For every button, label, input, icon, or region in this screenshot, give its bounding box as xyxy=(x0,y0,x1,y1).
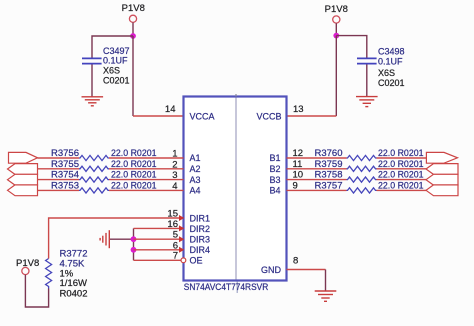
wire R3760 to off-page connector B1 xyxy=(377,157,427,159)
wire bus to pin 7 OE xyxy=(134,259,182,261)
ground below C3497 xyxy=(82,97,104,106)
svg-text:R3753: R3753 xyxy=(51,180,79,191)
svg-text:A1: A1 xyxy=(190,153,201,163)
wire pin 8 GND xyxy=(287,269,326,271)
capacitor C3497 reference/value labels xyxy=(103,46,130,86)
off-page connector B4 (right row 4) xyxy=(426,185,458,196)
svg-text:VCCA: VCCA xyxy=(190,112,215,122)
svg-text:R3755: R3755 xyxy=(51,159,79,170)
svg-text:1: 1 xyxy=(172,149,177,160)
resistor R3760 xyxy=(347,155,377,160)
svg-text:P1V8: P1V8 xyxy=(325,4,348,15)
wire pin 9 to resistor R3757 xyxy=(287,189,347,191)
svg-text:B1: B1 xyxy=(269,153,280,163)
wire A4 connector to resistor R3753 xyxy=(38,189,80,191)
off-page connector A3 (left row 3) xyxy=(8,174,38,185)
svg-text:0.1UF: 0.1UF xyxy=(103,56,128,66)
resistor R3772 xyxy=(46,259,52,289)
svg-text:7: 7 xyxy=(173,251,178,262)
wire bus to pin 16 DIR2 xyxy=(134,227,180,229)
svg-text:B2: B2 xyxy=(269,164,280,174)
svg-text:DIR3: DIR3 xyxy=(190,235,211,245)
svg-text:13: 13 xyxy=(293,104,304,115)
svg-text:6: 6 xyxy=(173,240,178,251)
capacitor C3497 xyxy=(82,58,102,63)
wire R3757 to off-page connector B4 xyxy=(377,189,427,191)
resistor R3757 xyxy=(347,188,377,193)
pin 15 arrowhead DIR1 xyxy=(179,215,184,221)
svg-text:A4: A4 xyxy=(190,186,201,196)
svg-text:R3756: R3756 xyxy=(51,148,79,159)
svg-text:DIR4: DIR4 xyxy=(190,245,211,255)
wire junction down to pin 14 row xyxy=(132,36,134,116)
ground (rotated, at DIR tie) xyxy=(100,230,109,248)
pin 16 arrowhead DIR2 xyxy=(179,225,184,231)
junction P1V8/C3498 tap xyxy=(333,33,339,39)
pin 6 arrowhead DIR4 xyxy=(179,247,184,253)
svg-text:P1V8: P1V8 xyxy=(16,258,39,269)
svg-text:15: 15 xyxy=(167,209,178,220)
capacitor C3498 xyxy=(357,58,377,63)
svg-text:16: 16 xyxy=(167,219,178,230)
svg-text:R3754: R3754 xyxy=(51,170,79,181)
wire bus to pin 6 DIR4 xyxy=(134,249,180,251)
svg-text:9: 9 xyxy=(293,180,298,191)
svg-text:R0402: R0402 xyxy=(60,288,88,299)
resistor R3755 xyxy=(79,166,109,171)
wire pin 11 to resistor R3759 xyxy=(287,168,347,170)
wire pin 10 to resistor R3758 xyxy=(287,179,347,181)
svg-text:11: 11 xyxy=(293,159,303,170)
wire A3 connector to resistor R3754 xyxy=(38,179,80,181)
resistor R3759 xyxy=(347,166,377,171)
capacitor C3498 reference/value labels xyxy=(378,46,405,88)
off-page connector B3 (right row 3) xyxy=(426,174,458,185)
wire R3758 to off-page connector B3 xyxy=(377,179,427,181)
wire bus to pin 5 DIR3 xyxy=(134,238,180,240)
svg-text:14: 14 xyxy=(165,104,176,115)
svg-text:VCCB: VCCB xyxy=(256,112,281,122)
wire junction to capacitor C3497 xyxy=(92,36,133,58)
wire to pin 14 VCCA xyxy=(133,115,184,117)
wire DIR bus (DIR2-OE tie) xyxy=(133,228,135,260)
off-page connector A1 (left row 1) xyxy=(9,152,38,163)
IC internal divider with stubs xyxy=(236,94,237,293)
junction DIR4 tie xyxy=(131,247,137,253)
off-page connector B2 (right row 2) xyxy=(426,164,458,175)
pin 5 arrowhead DIR3 xyxy=(179,236,184,242)
pin 7 inversion bubble OE xyxy=(181,258,186,263)
svg-text:A3: A3 xyxy=(190,175,201,185)
svg-text:GND: GND xyxy=(261,265,282,275)
wire A1 connector to resistor R3756 xyxy=(38,157,80,159)
wire pin 12 to resistor R3760 xyxy=(287,157,347,159)
svg-text:C0201: C0201 xyxy=(103,76,130,86)
wire R3772 top to pin 15 xyxy=(49,218,180,259)
svg-text:12: 12 xyxy=(293,148,304,159)
wire GND down xyxy=(325,270,327,291)
wire junction to capacitor C3498 xyxy=(336,36,367,58)
wire A2 connector to resistor R3755 xyxy=(38,168,80,170)
IC U1 SN74AVC4T774RSVR body xyxy=(184,97,287,281)
svg-text:8: 8 xyxy=(293,256,298,267)
wire P1V8 flag to junction xyxy=(132,23,134,37)
wire ground to DIR bus xyxy=(110,238,134,240)
wire R3753 to pin 4 xyxy=(109,189,184,191)
wire R3755 to pin 2 xyxy=(109,168,184,170)
svg-text:4: 4 xyxy=(172,181,177,192)
wire P1V8 flag to junction (right) xyxy=(335,23,337,35)
power flag P1V8 (top-right) xyxy=(325,4,348,23)
wire R3756 to pin 1 xyxy=(109,157,184,159)
svg-text:R3757: R3757 xyxy=(315,180,343,191)
svg-text:10: 10 xyxy=(293,170,304,181)
svg-text:P1V8: P1V8 xyxy=(122,3,145,14)
svg-text:OE: OE xyxy=(190,256,203,266)
svg-text:2: 2 xyxy=(172,159,177,170)
svg-text:C3497: C3497 xyxy=(103,46,130,56)
wire C3498 to ground xyxy=(366,65,368,97)
svg-text:R3760: R3760 xyxy=(315,148,343,159)
svg-text:A2: A2 xyxy=(190,164,201,174)
svg-text:R3759: R3759 xyxy=(315,159,343,170)
resistor R3753 xyxy=(79,188,109,193)
ground below C3498 xyxy=(356,97,378,107)
power flag P1V8 (bottom-left) xyxy=(16,258,39,275)
power flag P1V8 (top-left) xyxy=(122,3,145,22)
resistor R3756 xyxy=(79,155,109,160)
wire junction down to pin 13 row xyxy=(335,36,337,116)
svg-text:C3498: C3498 xyxy=(378,46,405,56)
svg-text:X6S: X6S xyxy=(378,68,395,78)
wire C3497 to ground xyxy=(91,65,93,97)
svg-text:C0201: C0201 xyxy=(378,78,405,88)
svg-text:DIR2: DIR2 xyxy=(190,224,211,234)
svg-text:3: 3 xyxy=(172,170,177,181)
svg-text:0.1UF: 0.1UF xyxy=(378,57,403,67)
svg-text:DIR1: DIR1 xyxy=(190,213,211,223)
ground (below pin 8) xyxy=(315,291,337,301)
wire P1V8 flag to R3772 bottom xyxy=(25,275,48,307)
junction DIR3 tie xyxy=(131,236,137,242)
R3772 reference/value labels xyxy=(60,249,88,300)
wire R3759 to off-page connector B2 xyxy=(377,168,427,170)
svg-text:R3758: R3758 xyxy=(315,170,343,181)
off-page connector B1 (right row 1) xyxy=(426,152,457,163)
svg-text:B4: B4 xyxy=(269,186,280,196)
resistor R3754 xyxy=(79,177,109,182)
off-page connector A4 (left row 4) xyxy=(8,185,38,196)
svg-text:X6S: X6S xyxy=(103,65,120,75)
wire R3754 to pin 3 xyxy=(109,179,184,181)
svg-text:B3: B3 xyxy=(269,175,280,185)
resistor R3758 xyxy=(347,177,377,182)
off-page connector A2 (left row 2) xyxy=(8,164,38,175)
wire to pin 13 VCCB xyxy=(287,115,337,117)
svg-text:SN74AVC4T774RSVR: SN74AVC4T774RSVR xyxy=(184,282,268,292)
junction P1V8/C3497 tap xyxy=(130,33,136,39)
svg-text:5: 5 xyxy=(173,230,178,241)
